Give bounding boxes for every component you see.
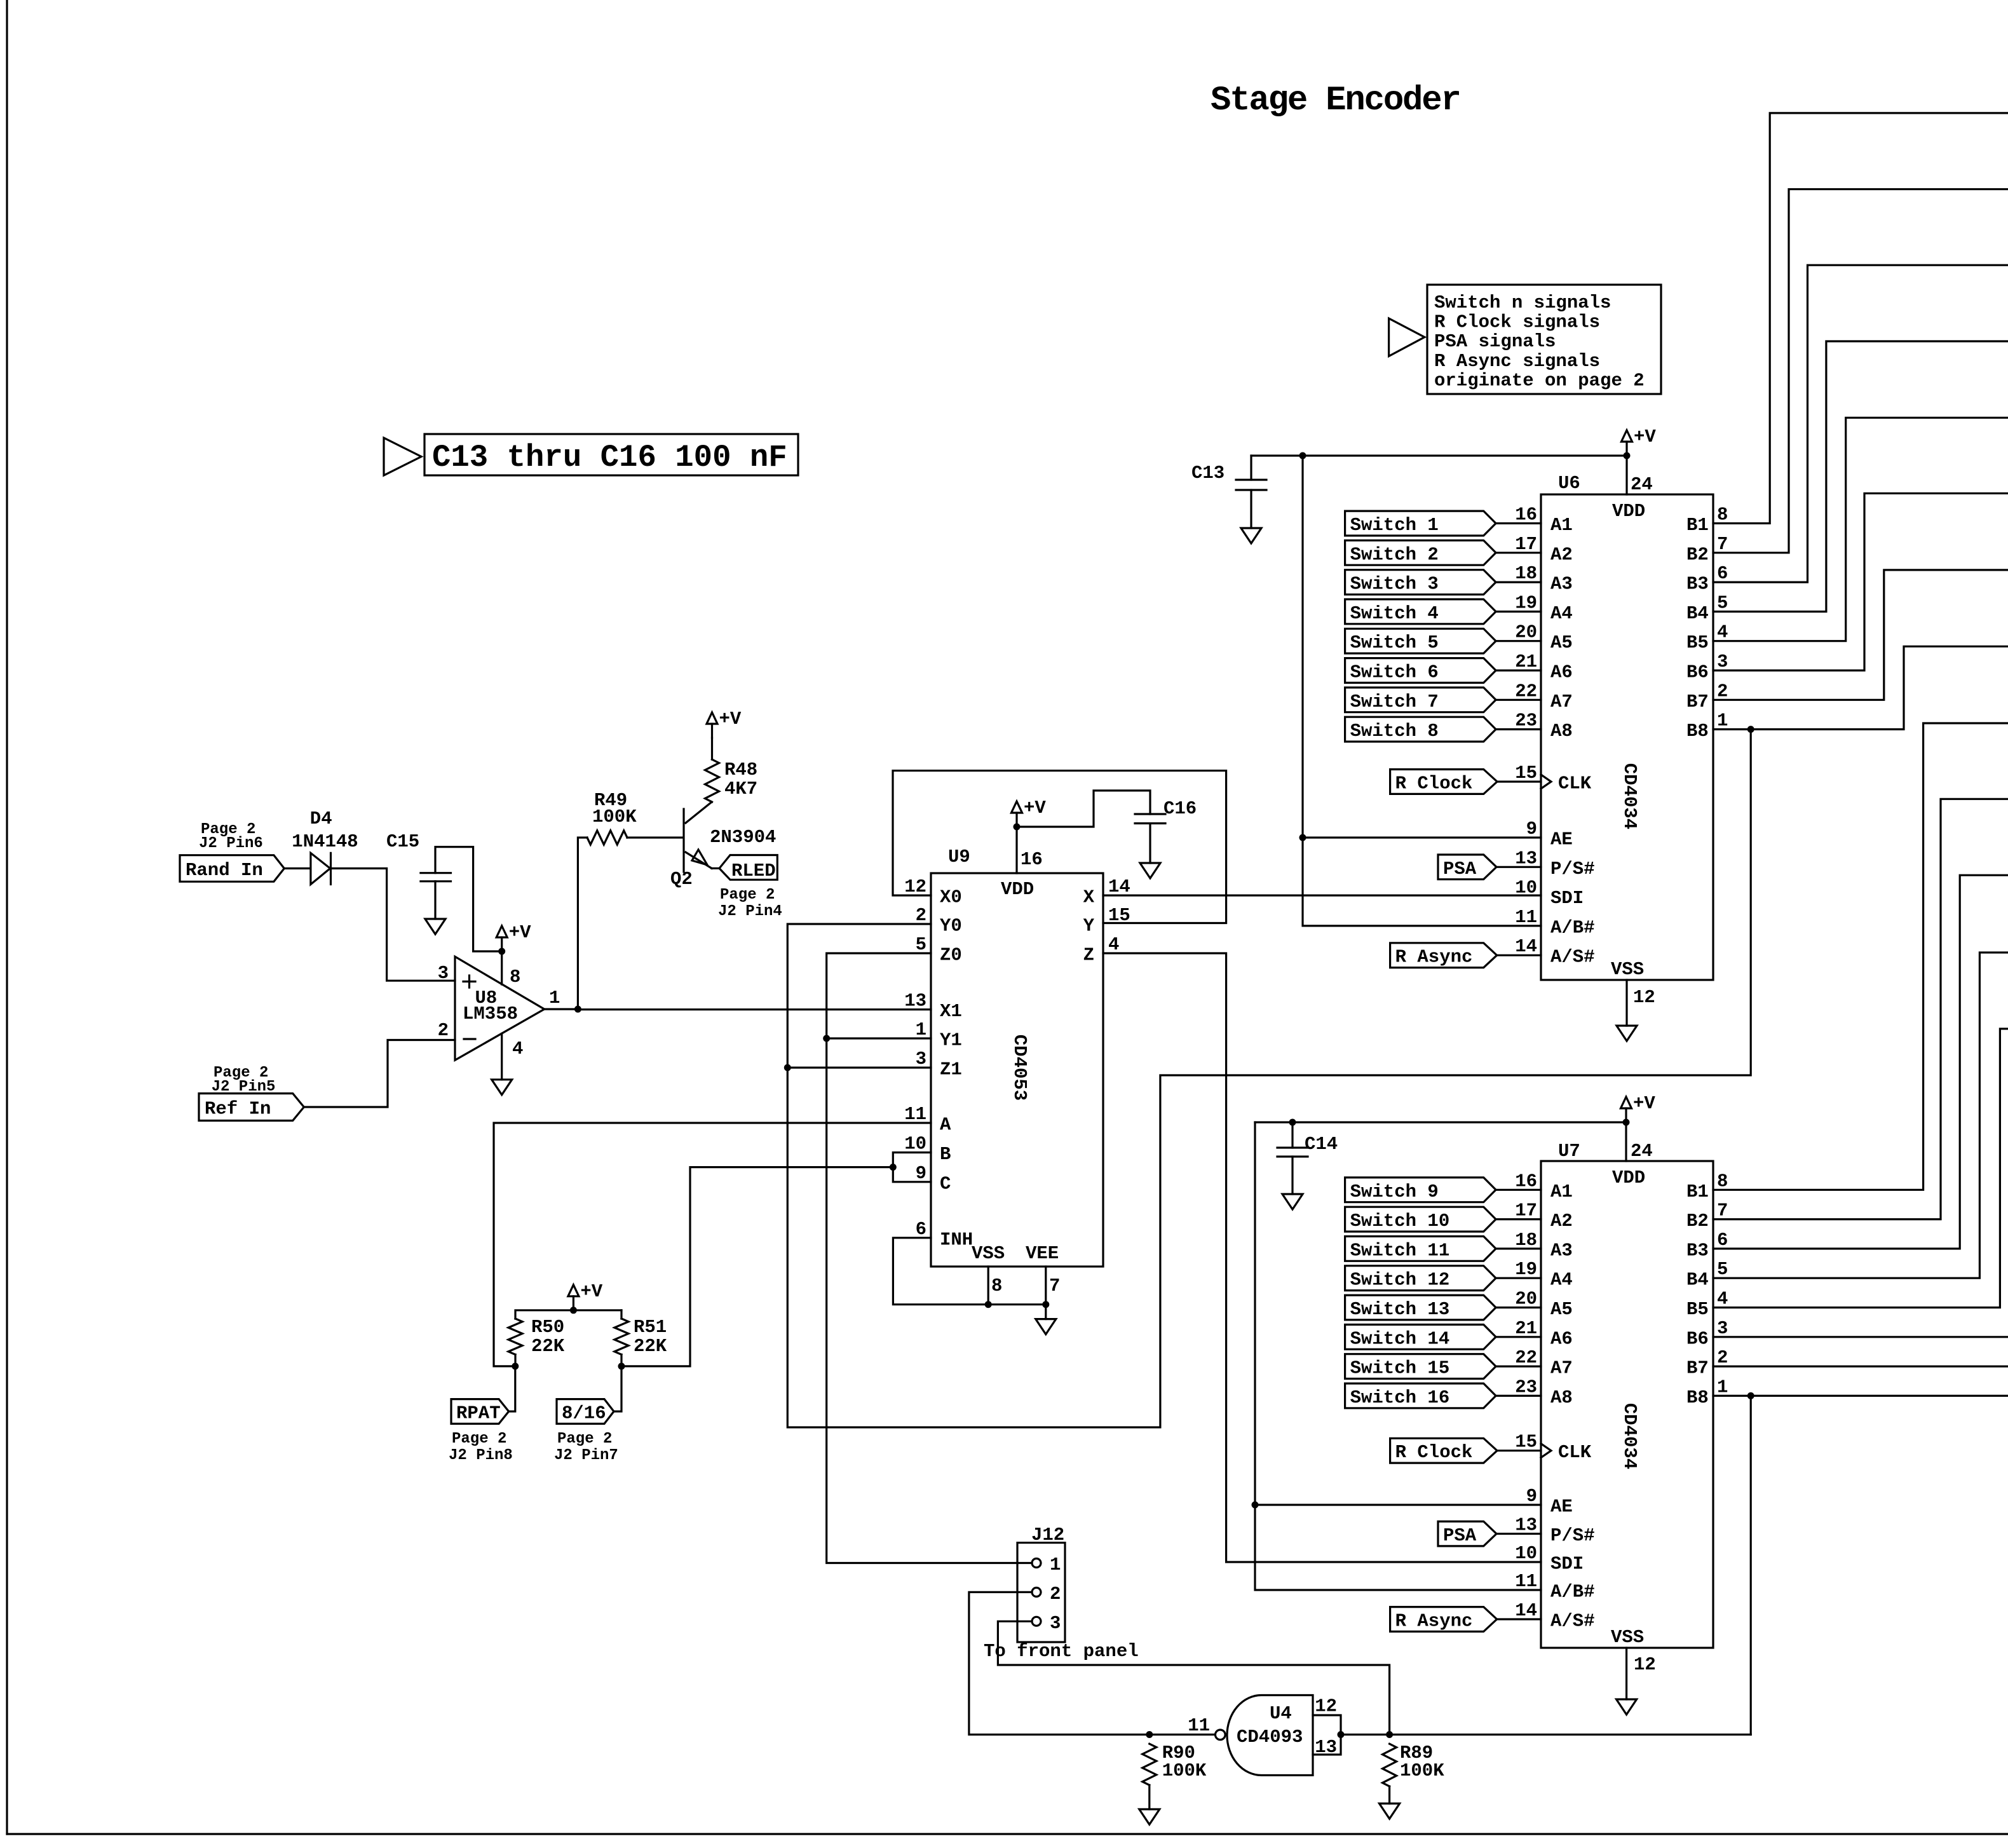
svg-text:22K: 22K [531,1336,565,1357]
svg-text:A4: A4 [1550,1270,1573,1291]
wire U6 B6 [1713,493,2008,670]
svg-text:8: 8 [1717,1171,1728,1192]
wire Switch 1 to U6 A1 [1496,522,1541,524]
svg-text:U6: U6 [1558,473,1580,494]
net tag Switch 15 [1345,1354,1496,1379]
junction AE [1299,834,1306,841]
svg-text:A4: A4 [1550,603,1573,624]
net tag Switch 12 [1345,1266,1496,1291]
svg-text:J2 Pin7: J2 Pin7 [554,1447,618,1464]
svg-text:+V: +V [509,922,531,943]
svg-text:VDD: VDD [1612,501,1645,522]
svg-text:+V: +V [1024,798,1046,819]
svg-text:Switch 3: Switch 3 [1350,574,1439,595]
border frame [6,0,8,1834]
wire Switch 11 to U7 A3 [1496,1247,1541,1249]
svg-text:CD4034: CD4034 [1619,1403,1640,1469]
net tag PSA (U6) [1438,855,1496,880]
svg-text:17: 17 [1515,534,1537,555]
svg-text:C14: C14 [1305,1134,1338,1155]
wire U7 B2 [1713,799,2008,1219]
net tag Switch 10 [1345,1207,1496,1232]
svg-text:B4: B4 [1686,603,1709,624]
wire U9 Z output down to U7 SDI [1103,953,1541,1562]
wire U6 B1 [1713,113,2008,524]
svg-text:100K: 100K [1400,1760,1444,1781]
wire D4 to op-amp pin 3 [331,869,456,981]
svg-text:Page 2: Page 2 [720,887,775,904]
svg-text:Switch 10: Switch 10 [1350,1211,1450,1232]
svg-text:Switch 6: Switch 6 [1350,662,1439,683]
power +V (R50/R51) [573,1296,574,1310]
svg-text:1: 1 [1050,1554,1061,1575]
svg-text:R Clock: R Clock [1395,773,1473,794]
net tag R Async (U6) [1390,943,1497,968]
svg-text:8: 8 [991,1275,1002,1296]
wire U7 B7 [1713,1366,2008,1368]
net tag PSA (U7) [1438,1521,1496,1546]
wire U7 B1 [1713,723,2008,1190]
wire Switch 15 to U7 A7 [1496,1366,1541,1368]
svg-text:PSA: PSA [1443,859,1477,880]
wire R Async to U6 A/S# [1497,955,1541,956]
svg-text:B1: B1 [1686,515,1709,536]
wire Rand In to D4 [284,867,311,869]
svg-text:SDI: SDI [1550,888,1584,909]
svg-text:A6: A6 [1550,1328,1573,1349]
svg-text:Switch 5: Switch 5 [1350,632,1439,653]
svg-text:5: 5 [1717,592,1728,613]
wire U9 B/C tie [893,1153,931,1182]
wire U9 Y0 / Z1 net to U6 B8 [787,730,1751,1427]
ground (U8) [492,1080,512,1095]
ground (R89) [1380,1804,1400,1819]
svg-text:C13 thru C16 100 nF: C13 thru C16 100 nF [432,440,787,475]
svg-text:D4: D4 [310,808,332,829]
wire U6 B4 [1713,341,2008,611]
svg-text:B6: B6 [1686,1328,1709,1349]
svg-text:R Async: R Async [1395,947,1473,968]
svg-text:4K7: 4K7 [724,778,757,799]
svg-text:22: 22 [1515,1347,1537,1368]
svg-text:Switch 14: Switch 14 [1350,1328,1450,1349]
svg-text:18: 18 [1515,563,1537,584]
svg-text:Y1: Y1 [940,1030,962,1051]
svg-text:AE: AE [1550,1497,1573,1518]
net tag R Clock (U7) [1390,1438,1497,1463]
svg-text:Y: Y [1083,916,1095,937]
svg-text:3: 3 [916,1049,926,1070]
minus input marker [464,1038,475,1040]
svg-text:B5: B5 [1686,632,1709,653]
svg-text:B5: B5 [1686,1299,1709,1320]
svg-text:U7: U7 [1558,1141,1580,1162]
J12 pin 3 [1032,1617,1041,1626]
wire +V rail down to U7 AE and A/B# [1255,1122,1541,1590]
svg-text:16: 16 [1515,505,1537,526]
svg-text:18: 18 [1515,1230,1537,1251]
svg-text:B3: B3 [1686,574,1709,595]
Q2 emitter with arrow [686,852,712,868]
svg-text:B1: B1 [1686,1181,1709,1202]
svg-text:R Async: R Async [1395,1611,1473,1632]
svg-text:AE: AE [1550,829,1573,850]
svg-text:VDD: VDD [1612,1167,1645,1188]
svg-text:1: 1 [1717,710,1728,731]
svg-text:B8: B8 [1686,721,1709,742]
junction VSS [985,1301,992,1308]
net tag Switch 8 [1345,717,1496,742]
wire U9 VEE pin 7 stub [1045,1267,1047,1305]
svg-text:RLED: RLED [731,860,776,881]
power +V (R48) [711,724,713,738]
svg-text:7: 7 [1717,534,1728,555]
svg-text:7: 7 [1717,1200,1728,1221]
svg-text:6: 6 [1717,563,1728,584]
svg-text:5: 5 [1717,1259,1728,1280]
svg-text:Q2: Q2 [670,869,693,890]
svg-text:Switch 12: Switch 12 [1350,1270,1450,1291]
svg-text:9: 9 [916,1163,926,1184]
svg-text:A1: A1 [1550,515,1573,536]
svg-text:14: 14 [1515,936,1537,957]
svg-text:A3: A3 [1550,574,1573,595]
svg-text:100K: 100K [1162,1760,1207,1781]
svg-text:1N4148: 1N4148 [292,831,358,852]
svg-text:VSS: VSS [1611,959,1644,980]
svg-text:Switch 2: Switch 2 [1350,544,1439,565]
wire RPAT to R50 [509,1366,515,1411]
plus input marker [463,981,475,982]
wire Switch 13 to U7 A5 [1496,1307,1541,1308]
svg-text:100K: 100K [592,806,637,827]
svg-text:13: 13 [1515,848,1537,869]
svg-text:10: 10 [1515,1543,1537,1564]
junction R50 bottom [512,1362,519,1369]
svg-text:21: 21 [1515,1318,1537,1339]
svg-text:Switch 16: Switch 16 [1350,1387,1450,1408]
wire op-amp output pin 1 [545,1008,578,1010]
svg-text:LM358: LM358 [463,1003,518,1024]
svg-text:Switch 4: Switch 4 [1350,603,1439,624]
svg-text:22K: 22K [634,1336,667,1357]
svg-text:12: 12 [904,876,926,897]
svg-text:2: 2 [1050,1584,1061,1605]
svg-text:4: 4 [1717,622,1728,643]
svg-text:9: 9 [1526,819,1537,839]
svg-text:8/16: 8/16 [562,1403,606,1424]
svg-text:6: 6 [1717,1230,1728,1251]
svg-text:Switch 9: Switch 9 [1350,1181,1439,1202]
svg-text:Z1: Z1 [940,1059,962,1080]
wire Ref In to op-amp pin 2 [304,1040,455,1108]
wire U6 B8 [1713,646,2008,729]
svg-text:10: 10 [904,1134,926,1155]
svg-text:A2: A2 [1550,544,1573,565]
svg-text:15: 15 [1515,763,1537,784]
svg-text:R48: R48 [724,759,757,780]
net tag Switch 5 [1345,628,1496,653]
svg-text:J2 Pin8: J2 Pin8 [449,1447,513,1464]
wire U9 Z0 / Y1 net to J12 pin 1 [827,953,1017,1563]
wire +V to U6 AE and A/B# [1303,456,1541,926]
svg-text:6: 6 [916,1219,926,1240]
svg-text:C15: C15 [386,831,419,852]
svg-text:A5: A5 [1550,632,1573,653]
wire U7 B6 [1713,1336,2008,1338]
svg-text:11: 11 [904,1104,926,1125]
svg-text:B2: B2 [1686,544,1709,565]
svg-text:Switch n signals: Switch n signals [1434,292,1611,313]
net tag Switch 11 [1345,1237,1496,1261]
U4 output bubble pin 11 [1216,1730,1226,1740]
svg-text:Stage Encoder: Stage Encoder [1211,81,1460,120]
svg-text:R Async signals: R Async signals [1434,351,1600,372]
svg-text:To front panel: To front panel [984,1641,1139,1662]
svg-text:21: 21 [1515,651,1537,672]
wire U7 VSS pin 12 to ground [1625,1648,1627,1699]
svg-text:Rand In: Rand In [186,860,263,881]
svg-text:Switch 1: Switch 1 [1350,515,1439,536]
svg-text:B3: B3 [1686,1240,1709,1261]
power +V (U9) [1015,813,1017,827]
svg-text:17: 17 [1515,1200,1537,1221]
wire +V rail to U7 VDD pin 24 [1625,1122,1627,1161]
wire Switch 7 to U6 A7 [1496,699,1541,701]
note box signals originate on page 2 [1389,318,1425,357]
svg-text:3: 3 [1717,1318,1728,1339]
svg-text:11: 11 [1188,1715,1210,1736]
wire R49 to Q2 base [627,836,683,838]
ground (U7) [1617,1699,1637,1715]
ground (U9) [1036,1319,1056,1335]
op-amp U8 LM358 [455,956,545,1060]
connector J12 [1017,1543,1065,1642]
junction +V rail / VDD stub [1624,452,1631,459]
J12 pin 1 [1032,1559,1041,1568]
junction +V rail / AE drop [1299,452,1306,459]
svg-text:19: 19 [1515,1259,1537,1280]
wire U9 Z1 [787,1066,931,1068]
wire PSA to U6 P/S# [1496,866,1541,868]
svg-text:A/B#: A/B# [1550,1582,1595,1603]
svg-text:U9: U9 [948,846,970,867]
svg-text:CD4093: CD4093 [1237,1727,1303,1748]
svg-text:B4: B4 [1686,1270,1709,1291]
junction op-amp output [574,1006,581,1013]
wire J12 pin 3 to R89 node [998,1621,1389,1734]
Q2 collector [686,802,712,823]
ground (C16) [1140,863,1160,878]
svg-text:A8: A8 [1550,1387,1573,1408]
svg-text:16: 16 [1515,1171,1537,1192]
wire U6 B3 [1713,265,2008,582]
wire U9 X1 to op-amp output [578,1009,931,1010]
svg-text:+V: +V [580,1281,602,1302]
junction Z1 [784,1064,791,1071]
svg-text:A1: A1 [1550,1181,1573,1202]
svg-text:C16: C16 [1163,798,1197,819]
svg-text:VSS: VSS [1611,1627,1644,1648]
svg-text:C: C [940,1173,951,1194]
svg-text:A7: A7 [1550,691,1573,712]
svg-text:11: 11 [1515,907,1537,928]
net tag Switch 4 [1345,599,1496,624]
svg-text:4: 4 [1108,934,1119,955]
U6 clock input symbol [1541,775,1551,789]
wire Switch 4 to U6 A4 [1496,611,1541,613]
svg-text:Switch 7: Switch 7 [1350,691,1439,712]
svg-text:A: A [940,1115,951,1136]
net tag R Async (U7) [1390,1607,1497,1632]
IC U7 CD4034 [1541,1161,1713,1648]
svg-text:Page 2: Page 2 [452,1430,506,1448]
svg-text:R Clock: R Clock [1395,1442,1473,1463]
svg-text:9: 9 [1526,1486,1537,1507]
wire B/C to R51 [621,1167,893,1366]
wire PSA to U7 P/S# [1496,1533,1541,1535]
wire Switch 16 to U7 A8 [1496,1395,1541,1397]
svg-text:Ref In: Ref In [205,1099,271,1120]
svg-text:20: 20 [1515,1289,1537,1310]
ground (R90) [1139,1809,1160,1824]
svg-text:J2 Pin4: J2 Pin4 [718,903,782,920]
wire Switch 6 to U6 A6 [1496,669,1541,671]
svg-text:14: 14 [1515,1600,1537,1621]
svg-text:Switch 15: Switch 15 [1350,1358,1450,1379]
wire Switch 10 to U7 A2 [1496,1218,1541,1220]
svg-text:VSS: VSS [972,1243,1005,1264]
junction op-amp +V / C15 [498,948,505,955]
svg-text:B6: B6 [1686,662,1709,683]
junction U4 inputs [1338,1731,1345,1738]
wire U6 B5 [1713,418,2008,641]
svg-text:VDD: VDD [1001,879,1034,900]
wire R Async to U7 A/S# [1497,1618,1541,1620]
ground (C13) [1241,528,1261,543]
svg-text:X: X [1083,887,1095,908]
J12 pin 2 [1032,1587,1041,1596]
wire U9 VDD pin 16 to +V [1015,827,1017,873]
net tag Switch 13 [1345,1295,1496,1320]
IC U9 CD4053 [931,873,1103,1267]
svg-text:B7: B7 [1686,691,1709,712]
svg-text:2: 2 [1717,681,1728,702]
wire U4 output [1150,1734,1216,1736]
svg-text:PSA signals: PSA signals [1434,331,1556,352]
wire Switch 2 to U6 A2 [1496,552,1541,554]
net tag Switch 2 [1345,540,1496,565]
wire U9 X output to U6 SDI [1103,894,1541,896]
svg-text:+V: +V [1633,1093,1655,1114]
wire Switch 12 to U7 A4 [1496,1277,1541,1279]
svg-text:2N3904: 2N3904 [710,827,776,848]
net tag Switch 1 [1345,511,1496,536]
svg-text:13: 13 [904,991,926,1012]
svg-text:CD4034: CD4034 [1619,763,1640,829]
IC U6 CD4034 [1541,494,1713,980]
svg-text:P/S#: P/S# [1550,1525,1595,1546]
net tag RPAT [451,1399,509,1424]
wire Switch 9 to U7 A1 [1496,1189,1541,1191]
svg-text:20: 20 [1515,622,1537,643]
svg-text:2: 2 [916,905,926,926]
svg-text:CLK: CLK [1558,773,1592,794]
net tag Switch 9 [1345,1178,1496,1202]
wire U9 VSS pin 8 stub [987,1267,989,1305]
svg-text:12: 12 [1633,987,1655,1008]
svg-text:VEE: VEE [1026,1243,1059,1264]
svg-text:Switch 13: Switch 13 [1350,1299,1450,1320]
net tag 8/16 [557,1399,614,1424]
svg-text:J2 Pin6: J2 Pin6 [199,835,263,852]
wire U7 B4 [1713,953,2008,1278]
wire 8/16 to R51 [614,1366,621,1411]
wire op-amp pin 8 +V [501,951,503,984]
svg-text:R Clock signals: R Clock signals [1434,312,1600,333]
svg-text:14: 14 [1108,876,1130,897]
wire R Clock to U6 CLK [1497,780,1541,782]
svg-text:4: 4 [512,1038,523,1059]
svg-text:Z0: Z0 [940,945,962,966]
wire U9 X0 loop to Y output [893,771,1226,923]
svg-text:2: 2 [438,1020,449,1041]
wire U6 VSS pin 12 to ground [1625,980,1627,1026]
svg-text:13: 13 [1515,1515,1537,1536]
net tag Switch 16 [1345,1383,1496,1408]
junction U6 B8 [1747,726,1754,733]
wire +V to C16 [1017,791,1150,827]
net tag Switch 6 [1345,658,1496,683]
svg-text:+V: +V [719,709,742,730]
wire op-amp pin 4 to ground [501,1034,503,1080]
svg-text:B7: B7 [1686,1358,1709,1379]
svg-text:B: B [940,1144,951,1165]
ground (C15) [425,919,445,934]
svg-text:Page 2: Page 2 [557,1430,612,1448]
svg-text:P/S#: P/S# [1550,859,1595,880]
wire Switch 8 to U6 A8 [1496,728,1541,730]
svg-text:PSA: PSA [1443,1525,1477,1546]
junction U7 B8 [1747,1392,1754,1399]
svg-text:19: 19 [1515,592,1537,613]
note box C13 thru C16 100 nF [384,438,421,475]
svg-text:23: 23 [1515,1376,1537,1397]
svg-text:5: 5 [916,934,926,955]
svg-text:15: 15 [1515,1432,1537,1453]
wire U9 A to R50 [494,1123,931,1366]
svg-text:22: 22 [1515,681,1537,702]
svg-text:X0: X0 [940,887,962,908]
wire R Clock to U7 CLK [1497,1450,1541,1451]
svg-text:1: 1 [916,1019,926,1040]
svg-text:Switch 11: Switch 11 [1350,1240,1450,1261]
wire U7 B8 [1713,1395,2008,1397]
net tag Switch 7 [1345,688,1496,712]
svg-text:1: 1 [549,988,560,1009]
wire U6 B2 [1713,189,2008,553]
svg-text:3: 3 [1050,1613,1061,1634]
power +V (U8) [501,937,503,951]
svg-text:A8: A8 [1550,721,1573,742]
junction Y1 [823,1035,830,1042]
svg-text:R50: R50 [531,1317,564,1338]
svg-text:C13: C13 [1191,463,1224,484]
svg-text:RPAT: RPAT [456,1403,501,1424]
svg-text:7: 7 [1049,1275,1060,1296]
svg-text:originate on page 2: originate on page 2 [1434,370,1645,391]
wire +V rail to U6 VDD pin 24 [1625,456,1627,494]
